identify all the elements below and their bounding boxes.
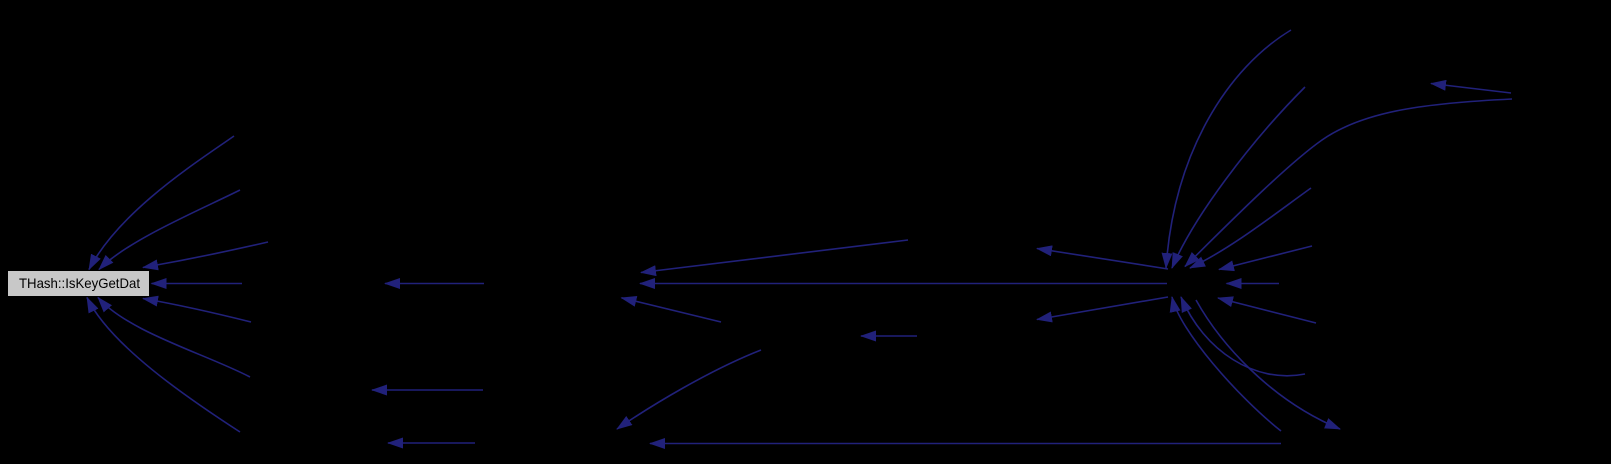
wire edge E4 into THash::IsKeyGetDat right [152,283,243,285]
node THash::IsKeyGetDat [8,271,150,297]
wire edge T1 curve into NodeR top [1166,30,1291,268]
wire edge T3 long curve into NodeR top [1185,99,1512,267]
wire edge BL long horizontal row 443 [650,443,1281,445]
wire edge E5 into THash::IsKeyGetDat bottom-right [143,299,251,323]
wire edge C3 into node3 bottom-right [622,298,722,322]
wire edge T2 curve into NodeR top [1172,87,1305,268]
svg-text:THash::IsKeyGetDat: THash::IsKeyGetDat [19,275,140,291]
wire edge E2 into THash::IsKeyGetDat top [99,190,240,270]
wire edge T4 curve into NodeR top [1190,188,1311,268]
wire edge F1 far right into node N6 [1431,84,1511,94]
wire edge C1 slanted into node3 top-right [641,240,908,273]
wire edge R5 into NodeR top-right corner [1219,246,1312,270]
wire edge E6 into THash::IsKeyGetDat bottom [98,298,250,378]
wire edge E7 into THash::IsKeyGetDat bottom [87,298,240,433]
wire edge R6 horizontal into NodeR right [1227,283,1280,285]
wire edge M2 middle column row 390 [372,389,483,391]
wire edge E1 into THash::IsKeyGetDat top [89,136,234,270]
wire edge E3 into THash::IsKeyGetDat top-right [143,242,268,268]
wire edge M3 middle column row 443 [388,442,475,444]
wire edge M1 middle column row 283 [385,283,484,285]
wire edge Rb1 curve into NodeR bottom [1172,297,1281,431]
wire edge B2 curve into bottom node3c [617,350,761,429]
wire edge Rout from NodeR to bottom-right node [1196,300,1340,429]
wire edge A2 NodeR bottom-left to node4c [1037,297,1168,320]
wire edge A1 NodeR top-left to node4a [1037,249,1168,270]
wire edge R7 into NodeR bottom-right corner [1218,298,1316,323]
wire edge Rb2 curve into NodeR bottom [1181,297,1305,376]
wire edge BS short horizontal row 336 [861,335,917,337]
wire edge C2 long horizontal row 283 [640,283,1167,285]
